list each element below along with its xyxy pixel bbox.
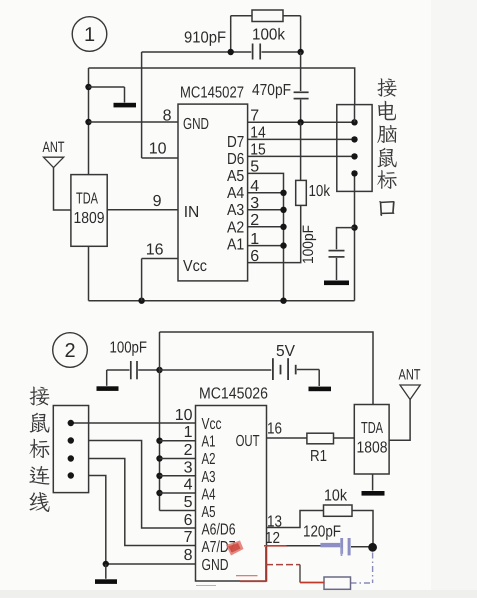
wire address pin stub y226.8 bbox=[248, 226, 284, 228]
svg-text:A3: A3 bbox=[227, 202, 244, 219]
wire pin 7 row to connector bbox=[248, 121, 355, 123]
wire node down to 470pF bbox=[300, 52, 302, 91]
svg-text:A3: A3 bbox=[202, 469, 216, 486]
capacitor 910pF plate left bbox=[252, 44, 254, 60]
battery plate short 2 bbox=[295, 365, 297, 375]
wire battery to ground bbox=[297, 369, 319, 371]
svg-text:A2: A2 bbox=[202, 451, 216, 468]
svg-text:R1: R1 bbox=[310, 448, 327, 465]
junction A-bus c2 bbox=[156, 455, 162, 461]
junction A-bus c2 bbox=[156, 490, 162, 496]
svg-text:ANT: ANT bbox=[399, 367, 421, 384]
connector J1 to computer mouse port bbox=[337, 105, 372, 192]
ground (100pF c2) bbox=[97, 386, 119, 391]
ground (TDA1808) bbox=[362, 491, 385, 496]
svg-text:4: 4 bbox=[184, 477, 193, 494]
wire A pin stub y493 bbox=[160, 492, 196, 494]
svg-text:10: 10 bbox=[149, 141, 167, 158]
svg-text:120pF: 120pF bbox=[303, 524, 341, 541]
junction address bus bbox=[280, 242, 286, 248]
red annotation: pin12 wire overlay bbox=[264, 545, 287, 547]
wire pin 15 D6 row to connector bbox=[248, 155, 355, 157]
junction ground branch bbox=[85, 84, 91, 90]
junction A-bus c2 bbox=[156, 473, 162, 479]
junction pin8 branch bbox=[85, 119, 91, 125]
wire pin 10 stub bbox=[142, 157, 178, 159]
wire 10k to feedback node bbox=[352, 511, 373, 544]
wire A pin stub y458.5 bbox=[160, 458, 196, 460]
battery plate long 2 bbox=[287, 358, 289, 380]
svg-text:16: 16 bbox=[267, 421, 282, 438]
red annotation: faint mark bottom bbox=[196, 585, 216, 587]
junction right of 910pF bbox=[297, 49, 303, 55]
svg-text:1: 1 bbox=[184, 424, 193, 441]
svg-text:GND: GND bbox=[183, 116, 209, 133]
ground (GND c2) bbox=[95, 579, 117, 584]
junction bus to rail bbox=[280, 298, 286, 304]
svg-text:5V: 5V bbox=[276, 343, 295, 360]
wire 100k left lead bbox=[231, 15, 252, 17]
op-amp U1 MC145027 body bbox=[178, 104, 248, 281]
resistor R1 bbox=[307, 433, 334, 444]
wire 5V top rail bbox=[160, 332, 374, 405]
junction 5V node bbox=[156, 367, 162, 373]
svg-text:8: 8 bbox=[163, 107, 172, 124]
svg-text:2: 2 bbox=[64, 340, 75, 362]
connector J1 contact 3 bbox=[351, 153, 357, 159]
svg-text:7: 7 bbox=[184, 529, 193, 546]
wire 100pF to ground bbox=[336, 258, 338, 280]
svg-text:OUT: OUT bbox=[236, 433, 260, 450]
wire address pin stub y192.8 bbox=[248, 192, 284, 194]
capacitor 470pF top plate bbox=[294, 91, 309, 93]
wire A pin stub y475.8 bbox=[160, 475, 196, 477]
wire battery ground drop bbox=[318, 370, 320, 387]
wire pin 9 IN row bbox=[107, 209, 178, 211]
ground (top left) bbox=[114, 103, 137, 108]
junction address bus bbox=[280, 207, 286, 213]
svg-text:A5: A5 bbox=[202, 504, 216, 521]
wire 5V vertical / A-bus c2 bbox=[159, 332, 161, 511]
wire pin 8 GND row bbox=[89, 121, 179, 123]
wire J2 contact4 to pin8 GND bbox=[89, 476, 196, 565]
capacitor 100pF left plate bbox=[130, 361, 132, 379]
junction pin7/470pF/10k bbox=[297, 119, 303, 125]
capacitor 100pF bottom plate bbox=[329, 256, 345, 258]
svg-text:A2: A2 bbox=[227, 219, 244, 236]
svg-text:A1: A1 bbox=[227, 237, 244, 254]
wire pin 5 row / address bus bbox=[248, 173, 284, 300]
resistor 10k c2 bbox=[324, 505, 353, 516]
svg-text:100pF: 100pF bbox=[110, 340, 148, 357]
red annotation: small underline below GND bbox=[236, 575, 258, 577]
capacitor 100pF top plate bbox=[329, 250, 345, 252]
svg-text:1808: 1808 bbox=[357, 440, 388, 457]
wire J2 contact3 to pin7 A7/D7 bbox=[89, 459, 196, 546]
wire 100k left lead drop bbox=[230, 16, 232, 52]
svg-text:MC145027: MC145027 bbox=[180, 85, 244, 102]
junction A-bus c2 bbox=[156, 438, 162, 444]
svg-text:10k: 10k bbox=[309, 183, 331, 200]
svg-text:10k: 10k bbox=[324, 488, 348, 505]
wire 100pF left lead bbox=[107, 369, 130, 371]
battery plate long 1 bbox=[272, 358, 274, 380]
wire pin 16 stub bbox=[142, 258, 178, 260]
label: circled number 1 bbox=[72, 17, 107, 52]
svg-text:D6: D6 bbox=[227, 151, 244, 168]
wire ground symbol drop bbox=[124, 87, 126, 103]
svg-text:A4: A4 bbox=[202, 486, 216, 503]
wire connector contact4 down to rail bbox=[354, 173, 356, 300]
junction address bus bbox=[280, 190, 286, 196]
wire cap to node bbox=[351, 546, 369, 548]
resistor 10k (RX1) bbox=[296, 180, 307, 205]
junction 100pF branch bbox=[351, 224, 357, 230]
wire dash-dot node down (purple) bbox=[372, 553, 374, 584]
wire top GND distribution line to connector bbox=[89, 68, 355, 105]
wire bottom ground rail bbox=[89, 300, 355, 302]
svg-text:2: 2 bbox=[184, 442, 193, 459]
svg-text:A4: A4 bbox=[227, 185, 244, 202]
capacitor 100pF right plate bbox=[136, 361, 138, 379]
svg-text:Vcc: Vcc bbox=[183, 258, 207, 275]
ground (below 100pF) bbox=[324, 281, 349, 286]
connector J2 contact 4 bbox=[68, 472, 74, 478]
wire 100pF right lead bbox=[138, 369, 159, 371]
wire pin 5 A5 stub bbox=[160, 510, 196, 512]
connector J1 contact 1 bbox=[351, 119, 357, 125]
svg-text:100pF: 100pF bbox=[300, 225, 317, 264]
svg-text:12: 12 bbox=[265, 530, 280, 547]
antenna symbol receiver bbox=[44, 157, 64, 167]
resistor (bottom annotated) bbox=[324, 577, 351, 589]
wire pin 6 row to 10k bottom bbox=[248, 205, 301, 262]
label: connect computer mouse port (Chinese vertical) bbox=[377, 78, 397, 96]
wire pin16 drop to rail bbox=[141, 259, 143, 301]
junction feedback node (heavy dot) bbox=[368, 543, 377, 552]
svg-text:Vcc: Vcc bbox=[202, 416, 222, 433]
junction GND c2 bbox=[103, 561, 109, 567]
wire jumper drop (dark) bbox=[299, 565, 301, 583]
wire pin 13 to 10k bbox=[267, 511, 324, 528]
connector J2 contact 2 bbox=[68, 437, 74, 443]
wire address pin stub y245.6 bbox=[248, 245, 284, 247]
red annotation: vertical along U2 right edge bbox=[265, 547, 267, 582]
label: connect mouse wire (Chinese vertical) bbox=[29, 387, 49, 406]
svg-text:16: 16 bbox=[146, 242, 164, 259]
wire left node down to pin10 bbox=[141, 52, 143, 158]
svg-text:TDA: TDA bbox=[361, 420, 383, 437]
wire pin 12 row bbox=[267, 545, 341, 547]
svg-text:IN: IN bbox=[184, 204, 200, 221]
red annotation: highlight blob on D7 bbox=[226, 541, 244, 556]
wire pin7 node down to 10k bbox=[300, 122, 302, 180]
svg-text:MC145026: MC145026 bbox=[199, 386, 268, 403]
svg-text:TDA: TDA bbox=[76, 191, 98, 208]
wire pin16 OUT to R1 bbox=[267, 437, 307, 439]
wire pin 14 D7 row to connector bbox=[248, 138, 355, 140]
red annotation: dashed jumper bbox=[266, 564, 300, 566]
wire connector top pin into box bbox=[354, 105, 356, 123]
svg-text:910pF: 910pF bbox=[184, 30, 226, 47]
svg-text:D7: D7 bbox=[227, 134, 244, 151]
svg-text:A6/D6: A6/D6 bbox=[202, 522, 236, 539]
wire antenna to TDA1809 bbox=[54, 168, 71, 210]
connector J1 contact 2 bbox=[351, 136, 357, 142]
antenna symbol transmitter bbox=[400, 385, 420, 400]
wire antenna2 to TDA1808 bbox=[389, 400, 410, 441]
wire R1 to TDA1808 bbox=[334, 437, 355, 439]
label: circled number 2 bbox=[53, 333, 88, 368]
junction Vcc rail bbox=[138, 298, 144, 304]
capacitor 910pF plate right bbox=[259, 44, 261, 60]
ground (battery) bbox=[309, 387, 332, 392]
wire node to battery bbox=[160, 369, 272, 371]
svg-text:5: 5 bbox=[184, 494, 193, 511]
resistor 100k bbox=[252, 10, 283, 22]
svg-text:ANT: ANT bbox=[43, 139, 65, 156]
wire TDA1808 to ground bbox=[372, 474, 374, 491]
red annotation: along U2 bottom edge bbox=[240, 580, 266, 582]
wire 100k right lead bbox=[283, 15, 301, 17]
battery plate short 1 bbox=[280, 365, 282, 375]
svg-text:8: 8 bbox=[184, 547, 193, 564]
svg-text:GND: GND bbox=[202, 557, 229, 574]
wire to ground symbol bbox=[89, 86, 125, 88]
wire address pin stub y209.8 bbox=[248, 209, 284, 211]
wire 100pF to ground drop bbox=[106, 370, 108, 386]
IC TDA1808 body bbox=[354, 405, 389, 475]
IC TDA1809 body bbox=[71, 175, 107, 247]
wire node line to 910pF left plate bbox=[142, 51, 252, 53]
wire left vertical (GND net) bbox=[88, 68, 90, 175]
junction address bus bbox=[280, 224, 286, 230]
red annotation: jumper to resistor bbox=[300, 582, 325, 584]
connector J2 contact 1 bbox=[68, 420, 74, 426]
wire dash-dot resistor right lead (purple) bbox=[351, 582, 373, 584]
wire J2 contact2 to pin6 A6/D6 bbox=[89, 441, 196, 529]
wire TDA1809 bottom to rail bbox=[88, 246, 90, 300]
connector J1 contact 4 bbox=[351, 170, 357, 176]
junction left of 910pF bbox=[228, 49, 234, 55]
wire to 100pF cap bbox=[337, 228, 355, 250]
IC U2 MC145026 body bbox=[196, 406, 267, 582]
wire pin 10 Vcc row bbox=[71, 422, 196, 424]
svg-text:A1: A1 bbox=[202, 434, 216, 451]
connector J2 mouse cable bbox=[53, 406, 88, 493]
wire 910pF right plate to node bbox=[262, 51, 301, 53]
capacitor 120pF (purple marker) bbox=[320, 543, 340, 547]
connector J2 contact 3 bbox=[68, 455, 74, 461]
svg-text:3: 3 bbox=[184, 459, 193, 476]
wire 470pF to pin7 row bbox=[300, 100, 302, 123]
wire A pin stub y440.7 bbox=[160, 440, 196, 442]
svg-text:10: 10 bbox=[175, 407, 193, 424]
wire 100k right lead drop bbox=[300, 16, 302, 52]
svg-text:1: 1 bbox=[84, 24, 95, 46]
svg-text:100k: 100k bbox=[252, 27, 286, 44]
svg-text:6: 6 bbox=[184, 512, 193, 529]
svg-text:1809: 1809 bbox=[74, 210, 105, 227]
capacitor 470pF bottom plate bbox=[294, 98, 309, 100]
wire GND to ground symbol bbox=[105, 564, 107, 579]
svg-text:A5: A5 bbox=[227, 168, 244, 185]
svg-text:470pF: 470pF bbox=[252, 82, 291, 99]
svg-text:9: 9 bbox=[153, 193, 162, 210]
